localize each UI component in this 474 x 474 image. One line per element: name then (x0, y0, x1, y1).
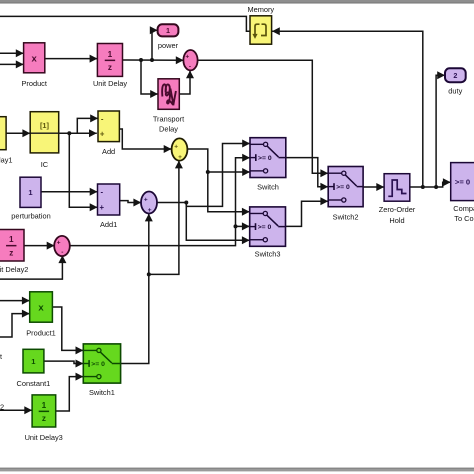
svg-text:Unit Delay3: Unit Delay3 (25, 433, 63, 442)
block Compare To Constant (451, 163, 474, 201)
svg-text:Switch: Switch (257, 183, 279, 192)
svg-text:Product: Product (21, 79, 46, 88)
junction duty tap (434, 185, 438, 189)
svg-text:x: x (32, 54, 38, 65)
svg-text:1: 1 (42, 401, 47, 410)
wire Product input 2 (0, 60, 24, 68)
svg-text:t: t (0, 352, 2, 361)
junction IC line branch (67, 131, 71, 135)
svg-text:Zero-Order: Zero-Order (379, 205, 416, 214)
svg-text:Switch1: Switch1 (89, 388, 115, 397)
wire Add to sum dV (119, 129, 171, 153)
sum dV (172, 138, 188, 161)
block Memory (250, 16, 272, 44)
svg-text:>= 0: >= 0 (258, 155, 272, 162)
svg-text:To Constant: To Constant (454, 214, 474, 223)
wire Product1 input 2 (0, 310, 30, 337)
svg-text:Compare: Compare (453, 204, 474, 213)
junction control to Switch3 middle (234, 224, 238, 228)
sum dP (183, 50, 197, 70)
block IC (30, 112, 60, 153)
wire Product input 1 (0, 49, 24, 57)
svg-text:+: + (144, 197, 148, 204)
block Add1 (98, 184, 120, 215)
sum dD (54, 236, 70, 256)
svg-text:Hold: Hold (389, 216, 404, 225)
wire branch down to Transport Delay (141, 60, 158, 98)
svg-text:duty: duty (448, 87, 462, 96)
block Unit Delay2 (0, 230, 24, 262)
wire branch to Switch3 middle control (236, 222, 250, 230)
wire Switch output to Switch2 middle (286, 158, 328, 191)
port power (158, 24, 179, 36)
svg-text:1: 1 (9, 235, 14, 244)
wire Unit Delay to sum dP (123, 56, 184, 64)
svg-text:Add: Add (102, 147, 115, 156)
block Switch2 (328, 167, 363, 207)
wire Memory output feedback to left edge (0, 16, 250, 31)
svg-text:>= 0: >= 0 (455, 177, 470, 186)
block Constant1 (23, 349, 44, 373)
wire branch up to Add top input (77, 114, 98, 133)
junction power branch (150, 58, 154, 62)
block Switch3 (250, 207, 286, 246)
wire sum dV branch to Switch3 top input (208, 172, 250, 216)
wire sum pert branch to Switch3 bottom input (186, 203, 249, 245)
svg-text:-: - (61, 249, 63, 256)
wire Product1 to Switch1 top (52, 307, 83, 354)
wire sum dV to Switch bottom input (187, 149, 250, 176)
svg-text:x: x (38, 302, 44, 313)
svg-text:Unit Delay: Unit Delay (93, 79, 127, 88)
svg-text:Transport: Transport (153, 115, 184, 124)
block perturbation (20, 177, 41, 207)
svg-text:Constant1: Constant1 (17, 379, 51, 388)
svg-text:-: - (101, 114, 104, 123)
block Product1 (30, 292, 53, 322)
wire sum pert out (157, 202, 186, 204)
wire Constant1 to Switch1 middle (44, 360, 83, 368)
junction sum pert fanout (184, 201, 188, 205)
block Zero-Order Hold (384, 174, 410, 202)
junction Switch1 line branch (147, 272, 151, 276)
wire Switch1 output up to sum pert bottom (121, 214, 153, 364)
wire Unit Delay2 to sum dD (24, 242, 55, 250)
svg-text:>= 0: >= 0 (91, 361, 105, 368)
svg-text:>= 0: >= 0 (258, 224, 272, 231)
svg-text:+: + (148, 207, 152, 214)
svg-text:1: 1 (166, 26, 170, 35)
wire ZOH output to Compare To Constant (410, 178, 451, 187)
wire branch up to power (150, 26, 158, 60)
svg-text:Add1: Add1 (100, 220, 117, 229)
svg-text:+: + (57, 240, 61, 247)
block Add (98, 111, 119, 142)
svg-text:z: z (108, 63, 112, 72)
wire sum dP to Switch2 top input (198, 60, 329, 177)
svg-text:+: + (174, 144, 178, 151)
svg-text:z: z (42, 414, 46, 423)
svg-text:IC: IC (41, 160, 49, 169)
block Delay1 cropped (0, 117, 6, 150)
svg-text:Delay1: Delay1 (0, 155, 13, 164)
wire IC to Add bottom (59, 129, 96, 137)
svg-text:2: 2 (453, 71, 457, 80)
junction memory feedback tap (421, 185, 425, 189)
block Product (24, 43, 45, 73)
wire Product1 input 1 (0, 297, 30, 305)
wire Unit Delay3 to Switch1 bottom (56, 373, 84, 411)
top gray bar (0, 0, 474, 4)
wire Unit Delay3 input (0, 406, 32, 414)
wire branch down to Add1 bottom input (69, 133, 97, 211)
block Unit Delay (97, 44, 122, 77)
svg-text:Switch3: Switch3 (255, 249, 281, 258)
wire Switch3 output to Switch2 bottom (286, 197, 329, 226)
block Transport Delay (158, 79, 179, 110)
wire Product to Unit Delay (45, 55, 98, 63)
svg-text:Memory: Memory (247, 5, 274, 14)
svg-text:-: - (189, 63, 191, 70)
block Unit Delay3 (32, 395, 56, 427)
block Switch (250, 138, 286, 178)
junction Switch bottom feed (206, 170, 210, 174)
wire ZOH line to Memory input (272, 27, 423, 187)
block Switch1 (83, 344, 120, 383)
svg-text:>= 0: >= 0 (336, 184, 350, 191)
wire Delay1 to IC input (6, 129, 30, 137)
wire left edge to sum dD bottom input (0, 255, 66, 279)
wire Switch2 output to Zero-Order Hold (363, 183, 384, 191)
wire sum dD to Switch middle control (69, 154, 250, 246)
svg-text:perturbation: perturbation (11, 211, 50, 220)
wire sum pert to Switch top input (186, 140, 250, 207)
svg-text:Unit Delay2: Unit Delay2 (0, 265, 28, 274)
svg-text:2: 2 (0, 402, 4, 411)
svg-text:1: 1 (108, 50, 113, 59)
svg-text:z: z (9, 248, 13, 257)
bottom gray bar (0, 468, 474, 472)
svg-text:Product1: Product1 (26, 329, 56, 338)
svg-text:+: + (100, 130, 105, 139)
wire perturbation to Add1 top input (41, 188, 98, 196)
svg-text:[1]: [1] (40, 121, 50, 130)
svg-text:Switch2: Switch2 (333, 212, 359, 221)
wire branch up to duty port (436, 71, 445, 187)
svg-text:Delay: Delay (159, 125, 178, 134)
sum pert (141, 192, 157, 215)
svg-text:-: - (100, 188, 103, 197)
wire branch to sum dV bottom input (149, 161, 183, 275)
wire Add1 to sum pert (120, 199, 142, 207)
wire Transport Delay to sum dP (179, 71, 194, 95)
svg-text:+: + (178, 154, 182, 161)
junction transport branch (139, 58, 143, 62)
svg-text:power: power (158, 41, 179, 50)
port duty (445, 68, 466, 82)
svg-text:+: + (100, 203, 105, 212)
svg-text:+: + (185, 54, 189, 61)
